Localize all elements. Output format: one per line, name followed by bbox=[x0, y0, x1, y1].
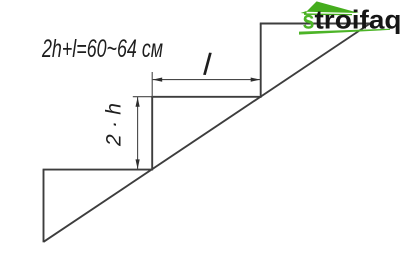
dimension l: dimension line bbox=[153, 79, 261, 81]
dimension 2*h: top extension line bbox=[133, 96, 153, 98]
wire: diagonal stringer line bbox=[44, 24, 370, 242]
dimension 2*h: top arrowhead bbox=[136, 97, 140, 107]
logo: green roof lower strip bbox=[304, 13, 352, 15]
logo: green underline bar bbox=[299, 29, 390, 35]
svg-text:s: s bbox=[303, 5, 315, 35]
dimension l: right arrowhead bbox=[251, 78, 261, 82]
dimension 2*h: dimension line bbox=[137, 97, 139, 169]
dimension 2*h: bottom arrowhead bbox=[136, 159, 140, 169]
wire: middle step riser bbox=[151, 97, 153, 171]
svg-text:2·h: 2·h bbox=[103, 103, 126, 147]
wire: bottom step riser bbox=[43, 170, 45, 243]
wire: bottom step tread bbox=[43, 169, 153, 171]
wire: top step tread bbox=[260, 23, 370, 25]
wire: middle step tread bbox=[151, 96, 261, 98]
logo: green roof left eave bbox=[301, 11, 307, 14]
svg-text:troifaq: troifaq bbox=[315, 5, 402, 35]
svg-text:2h+l=60~64 см: 2h+l=60~64 см bbox=[41, 35, 163, 63]
wire: top step riser bbox=[260, 24, 262, 98]
logo: green roof main triangle bbox=[306, 1, 359, 13]
dimension l: left extension line bbox=[151, 72, 153, 97]
dimension l: left arrowhead bbox=[153, 78, 163, 82]
